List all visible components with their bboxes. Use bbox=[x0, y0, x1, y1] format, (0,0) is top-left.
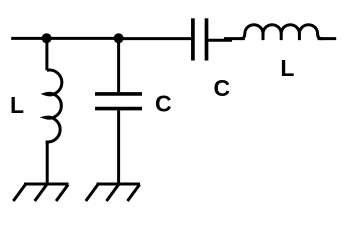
ground symbol GND2 bbox=[86, 184, 140, 201]
wire: node B down to capacitor C1 bbox=[117, 38, 120, 92]
wire: node B to capacitor C2 left plate bbox=[119, 37, 192, 40]
svg-text:C: C bbox=[155, 91, 172, 117]
svg-text:L: L bbox=[280, 55, 294, 81]
wire: inductor L2 to output lead bbox=[318, 37, 337, 40]
svg-text:C: C bbox=[214, 75, 231, 101]
wire: node A to node B bbox=[47, 37, 119, 40]
wire: input lead to node A bbox=[11, 37, 46, 40]
ground symbol GND1 bbox=[13, 184, 68, 201]
inductor L2 (series coil, 4 humps) bbox=[242, 25, 321, 39]
wire: jog segment into inductor L2 bbox=[224, 37, 245, 40]
node B (junction dot) bbox=[114, 33, 124, 43]
inductor L1 (shunt coil, 3 loops) bbox=[45, 70, 62, 142]
wire: inductor L1 down to ground bbox=[46, 141, 49, 184]
wire: capacitor C2 right plate to inductor L2 bbox=[208, 39, 232, 42]
svg-text:L: L bbox=[10, 92, 24, 118]
node A (junction dot) bbox=[42, 33, 52, 43]
wire: capacitor C1 down to ground bbox=[117, 110, 120, 183]
capacitor C2 (series, vertical plates) bbox=[193, 18, 207, 60]
capacitor C1 (shunt, horizontal plates) bbox=[95, 94, 142, 109]
wire: node A down to inductor L1 bbox=[45, 38, 48, 70]
